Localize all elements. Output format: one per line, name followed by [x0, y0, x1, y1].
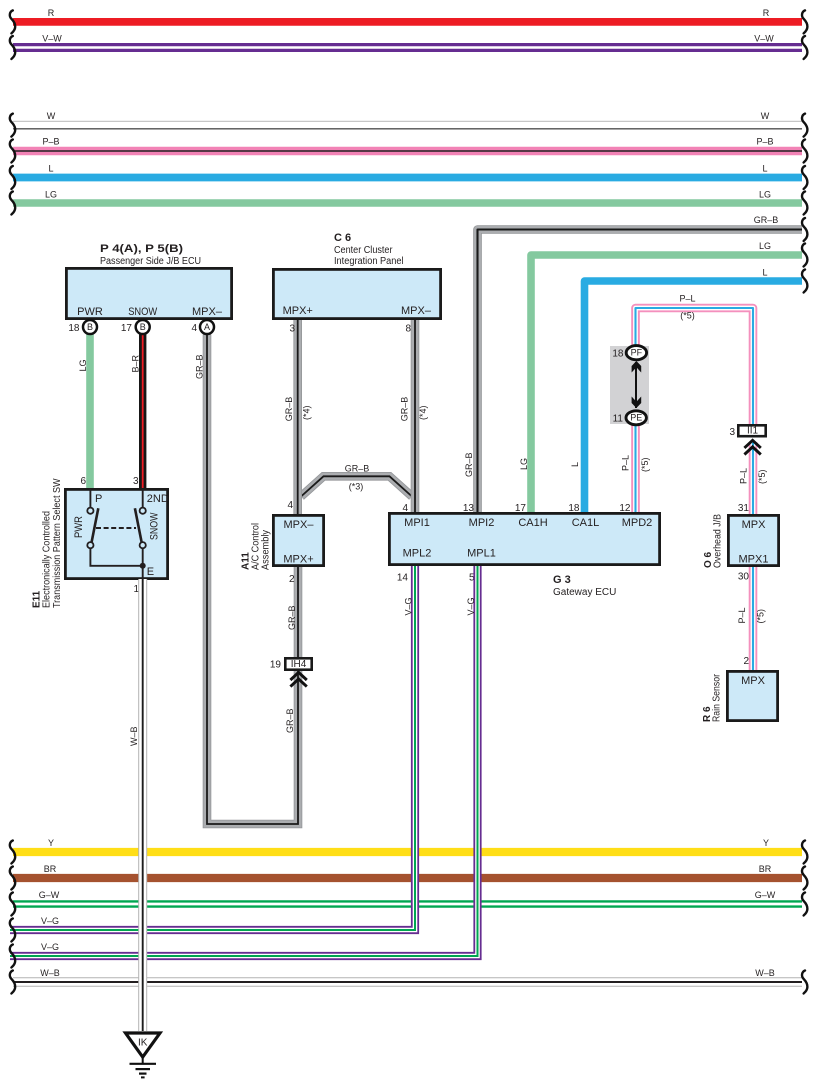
svg-text:BR: BR [44, 864, 57, 874]
svg-text:L: L [570, 462, 580, 467]
squiggle breaks left bottom [10, 841, 15, 864]
svg-text:R: R [763, 8, 770, 18]
svg-text:Center Cluster: Center Cluster [334, 245, 393, 256]
wire LG horizontal [13, 199, 802, 207]
svg-text:P–L: P–L [739, 468, 749, 484]
svg-text:8: 8 [405, 324, 411, 335]
ECU block G3 Gateway ECU [389, 513, 659, 564]
E11 internal wiring to node E [90, 548, 142, 579]
E11 mechanical link dashed [96, 527, 136, 529]
svg-text:17: 17 [515, 503, 527, 514]
wire V-G G3 MPL2 to left [10, 566, 415, 930]
svg-text:GR–B: GR–B [464, 452, 474, 477]
svg-text:MPX: MPX [742, 519, 767, 531]
svg-text:V–W: V–W [42, 33, 62, 43]
squiggle breaks right top [802, 10, 807, 33]
wire GR-B C6 pin3 to A11 MPX- [293, 320, 302, 515]
ground IK triangle [126, 1033, 161, 1057]
svg-text:GR–B: GR–B [400, 397, 410, 422]
wire P-L loop top [636, 308, 754, 425]
E11 pin 2ND stub and contact [142, 489, 144, 508]
svg-text:V–G: V–G [404, 597, 414, 615]
svg-text:P–B: P–B [756, 137, 773, 147]
svg-text:MPI2: MPI2 [469, 517, 495, 529]
svg-text:G–W: G–W [39, 890, 60, 900]
svg-text:G–W: G–W [755, 890, 776, 900]
svg-text:2ND: 2ND [147, 493, 169, 505]
svg-text:MPX1: MPX1 [739, 554, 769, 566]
svg-text:(*5): (*5) [757, 469, 767, 484]
svg-text:MPX–: MPX– [192, 306, 223, 318]
svg-text:13: 13 [463, 503, 475, 514]
svg-text:MPX: MPX [741, 675, 766, 687]
svg-text:Electronically Controlled: Electronically Controlled [42, 511, 53, 608]
svg-text:W–B: W–B [129, 726, 139, 746]
svg-text:V–G: V–G [41, 916, 59, 926]
svg-text:LG: LG [45, 189, 57, 199]
svg-text:MPX+: MPX+ [283, 554, 313, 566]
sensor block R6 Rain Sensor [727, 671, 777, 720]
svg-text:14: 14 [397, 573, 409, 584]
svg-text:GR–B: GR–B [345, 463, 370, 473]
E11 pin P stub and contact [89, 489, 91, 508]
svg-text:W: W [47, 111, 56, 121]
svg-text:GR–B: GR–B [284, 397, 294, 422]
svg-text:IH4: IH4 [291, 659, 307, 670]
svg-text:30: 30 [738, 572, 750, 583]
svg-text:GR–B: GR–B [285, 708, 295, 733]
junction block O6 Overhead J/B [728, 515, 778, 565]
svg-text:B–R: B–R [131, 354, 141, 372]
ECU block C6 Center Cluster Integration Panel [273, 269, 440, 318]
svg-text:MPI1: MPI1 [404, 517, 430, 529]
E11 switch blade left PWR [92, 508, 99, 542]
svg-text:LG: LG [759, 241, 771, 251]
svg-text:11: 11 [613, 413, 624, 424]
svg-text:V–G: V–G [41, 942, 59, 952]
wire GR-B C6 pin8 to G3 MPI1 [411, 320, 420, 513]
svg-text:MPX+: MPX+ [283, 305, 313, 317]
wire B-R P4 pin17 to E11 pin3 [139, 335, 146, 490]
wire V-W horizontal [13, 43, 802, 52]
svg-text:CA1L: CA1L [572, 517, 600, 529]
svg-text:Assembly: Assembly [261, 530, 272, 570]
svg-text:19: 19 [270, 660, 282, 671]
ground stem and hatches [142, 1057, 144, 1064]
wire P-L PE to G3 MPD2 [631, 424, 640, 513]
svg-text:31: 31 [738, 503, 750, 514]
wire GR-B A11 MPX+ to IH4 [294, 567, 303, 658]
svg-text:3: 3 [289, 324, 295, 335]
E11 switch blade right SNOW [135, 508, 142, 542]
svg-text:MPX–: MPX– [401, 305, 432, 317]
svg-text:A: A [204, 322, 210, 332]
junction block P4/P5 Passenger Side J/B ECU [66, 268, 231, 318]
wire R horizontal [13, 18, 802, 26]
wire BR horizontal [13, 874, 802, 882]
svg-text:Y: Y [763, 838, 769, 848]
wire V-G G3 MPL1 to left [10, 566, 478, 956]
svg-text:P–L: P–L [737, 607, 747, 623]
wire W-B E11 pin1 to ground [138, 579, 147, 1031]
svg-text:18: 18 [568, 503, 580, 514]
switch block E11 Transmission Pattern Select SW [65, 489, 167, 578]
svg-text:E: E [147, 566, 154, 578]
svg-text:4: 4 [402, 503, 408, 514]
svg-text:V–G: V–G [466, 597, 476, 615]
svg-text:P–L: P–L [679, 294, 695, 304]
svg-text:PE: PE [630, 413, 642, 423]
svg-text:3: 3 [729, 427, 735, 438]
svg-text:Gateway ECU: Gateway ECU [553, 587, 616, 598]
wire P-L O6 MPX1 to R6 MPX [749, 566, 758, 671]
wire LG from right to G3 CA1H [531, 255, 802, 513]
double arrow between PF and PE [635, 362, 637, 408]
E11 lower contacts [87, 542, 93, 548]
wire W-B horizontal [13, 977, 802, 986]
svg-text:W–B: W–B [40, 968, 60, 978]
svg-text:B: B [140, 322, 146, 332]
svg-text:PWR: PWR [73, 516, 85, 538]
wire G-W horizontal [13, 900, 802, 907]
wire P-L II1 to O6 MPX [749, 442, 758, 515]
shield chevron below IH4 [290, 672, 306, 686]
svg-text:SNOW: SNOW [149, 512, 161, 540]
wire W horizontal [13, 120, 802, 122]
svg-text:18: 18 [68, 323, 80, 334]
svg-text:4: 4 [287, 500, 293, 511]
svg-text:P–L: P–L [621, 455, 631, 471]
svg-text:SNOW: SNOW [128, 306, 158, 318]
svg-text:3: 3 [133, 476, 139, 487]
svg-text:(*4): (*4) [302, 405, 312, 420]
svg-text:(*3): (*3) [349, 482, 364, 492]
svg-text:R: R [48, 8, 55, 18]
svg-text:MPL1: MPL1 [467, 548, 496, 560]
svg-text:GR–B: GR–B [287, 605, 297, 630]
svg-text:Transmission Pattern Select SW: Transmission Pattern Select SW [52, 478, 63, 608]
svg-text:Rain Sensor: Rain Sensor [712, 673, 723, 722]
wire GR-B from right to G3 MPI2 [478, 230, 803, 514]
svg-text:IK: IK [138, 1038, 148, 1049]
svg-text:PF: PF [631, 348, 643, 358]
ECU block A11 A/C Control Assembly [273, 515, 323, 565]
svg-text:G 3: G 3 [553, 574, 571, 586]
svg-text:B: B [87, 322, 93, 332]
svg-text:C 6: C 6 [334, 232, 351, 244]
svg-text:P 4(A), P 5(B): P 4(A), P 5(B) [100, 243, 183, 255]
svg-text:II1: II1 [747, 425, 759, 436]
svg-text:P: P [95, 493, 102, 505]
shield chevron below II1 [744, 440, 760, 454]
wire L horizontal [13, 174, 802, 182]
wire GR-B bridge (*3) junction [301, 476, 412, 496]
wire LG P4 pin18 to E11 pin6 [86, 335, 94, 490]
svg-text:L: L [762, 268, 767, 278]
svg-text:(*5): (*5) [756, 609, 766, 624]
svg-text:6: 6 [80, 476, 86, 487]
node E junction dot [140, 563, 146, 569]
wire P-B horizontal [13, 147, 802, 155]
svg-text:17: 17 [121, 323, 133, 334]
svg-text:MPX–: MPX– [284, 519, 315, 531]
svg-text:LG: LG [78, 359, 88, 371]
wire GR-B P4 pin4 down and U-turn up to IH4 [207, 335, 298, 825]
svg-text:L: L [762, 164, 767, 174]
svg-text:W: W [761, 111, 770, 121]
svg-text:(*4): (*4) [418, 405, 428, 420]
svg-text:18: 18 [612, 348, 624, 359]
wire L from right to G3 CA1L [585, 281, 803, 513]
svg-text:Y: Y [48, 838, 54, 848]
svg-text:BR: BR [759, 864, 772, 874]
squiggle breaks right bottom [802, 841, 807, 864]
svg-text:MPL2: MPL2 [403, 548, 432, 560]
svg-text:MPD2: MPD2 [622, 517, 653, 529]
wire Y horizontal [13, 848, 802, 856]
svg-text:GR–B: GR–B [754, 215, 779, 225]
svg-text:LG: LG [519, 458, 529, 470]
svg-text:Passenger Side J/B ECU: Passenger Side J/B ECU [100, 256, 201, 267]
svg-text:V–W: V–W [754, 33, 774, 43]
svg-text:Integration Panel: Integration Panel [334, 256, 404, 267]
svg-text:2: 2 [743, 656, 749, 667]
svg-text:(*5): (*5) [640, 457, 650, 472]
squiggle breaks left top [10, 10, 15, 33]
svg-text:12: 12 [619, 503, 631, 514]
svg-text:PWR: PWR [77, 306, 103, 318]
svg-text:CA1H: CA1H [518, 517, 547, 529]
svg-text:L: L [48, 164, 53, 174]
svg-text:Overhead J/B: Overhead J/B [713, 514, 724, 568]
svg-text:W–B: W–B [755, 968, 775, 978]
svg-text:(*5): (*5) [680, 311, 695, 321]
svg-text:P–B: P–B [42, 137, 59, 147]
connector panel PF/PE gray background [610, 346, 649, 424]
svg-text:4: 4 [191, 323, 197, 334]
svg-text:2: 2 [289, 574, 295, 585]
svg-text:GR–B: GR–B [195, 354, 205, 379]
svg-text:LG: LG [759, 189, 771, 199]
